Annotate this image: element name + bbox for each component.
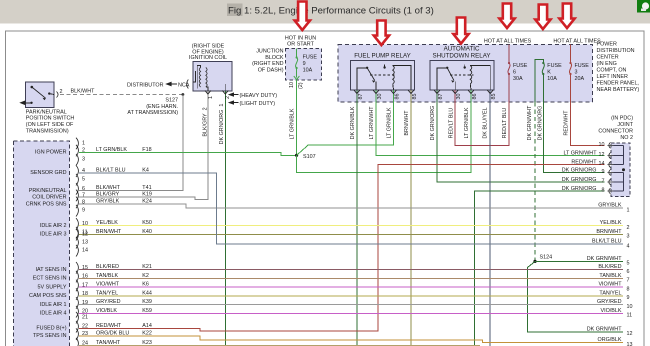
joint connector comb bus (lower) [614,173,624,192]
svg-text:T41: T41 [142,185,151,191]
svg-text:BRN/WHT: BRN/WHT [596,229,622,235]
wire BLK/RED K21 from PCM pin 15 to right edge pin 6 [79,269,623,271]
svg-text:F18: F18 [142,147,151,153]
svg-text:BRN/WHT: BRN/WHT [96,229,122,235]
svg-text:COMPT, ON: COMPT, ON [597,68,627,74]
svg-text:12: 12 [599,152,605,158]
PCM pin 23 terminal bracket [76,328,78,340]
svg-text:3: 3 [575,70,578,76]
svg-text:8: 8 [602,188,605,194]
right edge label BRN/WHT 3 [596,229,629,240]
junction block caption [252,49,284,74]
svg-text:A14: A14 [142,323,152,329]
wire ORG/DK BLU K22 from PCM pin 23 to right edge pin 13 [79,336,623,343]
fuel pump relay terminal pin 85 [408,90,414,94]
svg-text:BLK/GRY: BLK/GRY [96,192,120,198]
svg-text:(IN ENG: (IN ENG [597,61,617,67]
svg-text:COIL DRIVER: COIL DRIVER [32,194,66,200]
svg-text:BLK/GRY 2: BLK/GRY 2 [202,107,208,136]
header title "Fig" highlight [227,4,243,17]
svg-text:9: 9 [82,208,85,214]
svg-text:(RIGHT END: (RIGHT END [252,61,283,67]
PCM pin 11 wire label BRN/WHT K40 [96,229,152,235]
park/neutral switch pin 2 terminal bracket [57,92,59,98]
svg-text:20A: 20A [575,76,585,82]
power distribution center caption [597,42,640,94]
PCM pin 10 wire label YEL/BLK K50 [96,220,152,226]
ignition coil pin 1 terminal arrow [205,91,211,95]
svg-text:FENDER PANEL,: FENDER PANEL, [597,81,640,87]
svg-text:TAN/YEL: TAN/YEL [96,290,118,296]
svg-text:86: 86 [395,94,401,100]
svg-text:19: 19 [82,300,88,306]
svg-text:10: 10 [289,82,295,88]
park/neutral switch arm [32,87,46,98]
wire BLK/LT BLU K4 from PCM pin 4 to right edge pin 4 [79,173,623,244]
svg-text:DK GRN/ORG: DK GRN/ORG [537,106,543,141]
wire DK GRN/ORG from joint connector pin 8 down to bottom edge [474,191,604,346]
svg-text:LT GRN/BLK: LT GRN/BLK [290,108,296,139]
fuel pump relay coil link (dashed) [370,74,396,76]
svg-text:POSITION SWITCH: POSITION SWITCH [26,116,75,122]
svg-text:5V SUPPLY: 5V SUPPLY [38,284,67,290]
svg-text:K59: K59 [142,308,152,314]
svg-text:NEAR BATTERY): NEAR BATTERY) [597,87,640,93]
green toolbar button top-right [637,0,650,13]
svg-text:YEL/BLK: YEL/BLK [96,220,118,226]
svg-text:(IN PDC): (IN PDC) [611,116,633,122]
fuel pump relay arm terminal from pin 30 [375,82,377,90]
svg-text:10: 10 [82,221,88,227]
svg-text:DK GRN/ORG: DK GRN/ORG [562,186,597,192]
svg-text:4: 4 [82,168,85,174]
park/neutral switch contact dot [31,86,34,89]
svg-text:(LIGHT DUTY): (LIGHT DUTY) [240,101,276,107]
wire DK GRN/ORG from ASD relay pin 87 to joint connector pin 7 [437,90,605,182]
svg-text:1: 1 [627,207,630,213]
svg-text:IAT SENS IN: IAT SENS IN [36,267,67,273]
svg-text:12: 12 [82,232,88,238]
svg-text:DK GRN/WHT: DK GRN/WHT [527,105,533,140]
svg-text:15: 15 [82,265,88,271]
automatic shutdown relay terminal pin 87 [434,90,440,94]
svg-text:DK BLU/YEL: DK BLU/YEL [483,107,489,138]
svg-text:Fig 1: 5.2L, Engine Performanc: Fig 1: 5.2L, Engine Performance Circuits… [228,6,434,17]
svg-text:K44: K44 [142,290,152,296]
svg-text:ORG/BLK: ORG/BLK [598,337,622,343]
wire TAN/WHT from PCM pin 24 (clipped at bottom) [79,344,480,346]
automatic shutdown relay arm terminal from pin 30 [454,82,456,90]
svg-text:16: 16 [82,274,88,280]
svg-text:13: 13 [627,342,633,346]
svg-text:DK GRN/ORG 1: DK GRN/ORG 1 [219,104,225,145]
svg-text:S107: S107 [303,154,316,160]
svg-text:PRK/NEUTRAL: PRK/NEUTRAL [29,188,67,194]
PCM pin 22 wire label RED/WHT A14 [96,323,152,329]
red callout arrow over fuse K [535,5,550,30]
label HOT IN RUN OR START [285,36,316,48]
PCM pin 6 terminal bracket [76,183,78,195]
svg-text:CAM POS SNS: CAM POS SNS [29,293,67,299]
svg-text:10: 10 [599,142,605,148]
joint connector comb bus (upper) [614,145,624,164]
automatic shutdown relay coil to pin 85 [470,66,490,90]
svg-text:(2): (2) [298,82,304,89]
svg-text:OF DASH): OF DASH) [258,67,284,73]
PCM pin 22 terminal bracket [76,321,78,333]
svg-text:24: 24 [82,341,88,346]
svg-text:K21: K21 [142,264,152,270]
header toolbar bar [0,0,650,23]
svg-text:DISTRIBUTOR: DISTRIBUTOR [127,82,164,88]
svg-text:9: 9 [303,61,306,67]
park/neutral switch caption [26,109,75,134]
node S127 junction dot [182,93,185,96]
automatic shutdown relay terminal pin 85 [487,90,493,94]
PCM pin 24 wire label TAN/WHT K23 [96,340,152,346]
svg-text:BRN/WHT: BRN/WHT [404,110,410,136]
wire YEL/BLK K50 from PCM pin 10 to right edge pin 2 [79,225,623,227]
svg-text:RED/WHT: RED/WHT [571,159,597,165]
svg-text:CENTER: CENTER [597,55,619,61]
PCM pin 3 terminal bracket [76,154,78,166]
svg-text:YEL/BLK: YEL/BLK [600,220,622,226]
svg-text:2: 2 [60,89,63,95]
svg-text:IGNITION COIL: IGNITION COIL [189,55,227,61]
PCM pin 12 terminal bracket [76,229,78,241]
svg-text:K24: K24 [142,199,152,205]
wire DK BLU/YEL from ASD relay pin 85 to bottom edge [489,90,491,346]
right edge label GRY/BLK 1 [598,203,629,214]
svg-text:K: K [547,70,551,76]
svg-text:18: 18 [82,291,88,297]
svg-text:85: 85 [491,94,497,100]
svg-text:BLOCK: BLOCK [265,55,284,61]
svg-text:LT GRN/BLK: LT GRN/BLK [464,107,470,138]
wire RED/WHT from fuse 3 to joint connector pin 10 [571,74,605,145]
svg-text:DK GRN/ORG: DK GRN/ORG [430,106,436,141]
fuel pump relay coil winding [393,66,395,84]
PCM pin 5 terminal bracket [76,174,78,186]
joint connector caption [598,116,633,142]
PCM pin 16 wire label TAN/BLK K2 [96,273,149,279]
svg-text:9: 9 [602,169,605,175]
svg-text:2: 2 [225,96,231,99]
wire RED/LT BLU fuse 6 feed from PDC bus [508,45,510,64]
relay title AUTOMATIC SHUTDOWN RELAY [433,46,491,60]
wire RED/LT BLU from ASD relay pin 30 to fuse 6 [455,74,509,145]
right edge label VIO/BLK 11 [601,308,633,319]
svg-text:POWER: POWER [597,42,617,48]
right edge label DK GRN/WHT 12 [587,326,633,337]
svg-text:(ENG HARN.: (ENG HARN. [146,104,178,110]
fuel pump relay terminal pin 87 [354,90,360,94]
automatic shutdown relay movable arm [447,68,454,81]
wire GRY/RED K39 from PCM pin 19 to right edge pin 10 [79,304,623,306]
automatic shutdown relay terminal pin 86 [468,90,474,94]
wire VIO/WHT K6 from PCM pin 17 to right edge pin 8 [79,286,623,288]
svg-text:85: 85 [412,94,418,100]
svg-text:2: 2 [82,148,85,154]
svg-text:86: 86 [472,94,478,100]
svg-text:FUEL PUMP RELAY: FUEL PUMP RELAY [354,52,411,59]
svg-text:3: 3 [82,157,85,163]
svg-text:12: 12 [627,331,633,337]
svg-text:14: 14 [82,248,88,254]
PCM pin 2 wire label LT GRN/BLK F18 [96,147,152,153]
PCM pin 6 wire label BLK/WHT T41 [96,185,152,191]
ignition coil windings [193,66,226,92]
svg-text:11: 11 [627,313,633,319]
svg-text:4: 4 [627,243,630,249]
ignition coil pin 2 terminal arrow [222,91,228,95]
PCM pin 8 terminal bracket [76,197,78,209]
svg-text:S124: S124 [540,255,553,261]
svg-text:JOINT: JOINT [617,122,633,128]
right edge label YEL/BLK 2 [600,220,630,231]
svg-text:(ON LEFT SIDE OF: (ON LEFT SIDE OF [26,122,74,128]
PCM pin 19 wire label GRY/RED K39 [96,299,152,305]
svg-text:JUNCTION: JUNCTION [256,49,283,55]
svg-text:K4: K4 [142,167,149,173]
wire BRN/WHT from fuel pump relay pin 85 to bottom edge [410,90,412,346]
svg-text:IDLE AIR 4: IDLE AIR 4 [40,311,67,317]
svg-text:LT GRN/WHT: LT GRN/WHT [563,150,597,156]
node S124 junction dot [533,260,536,263]
right edge label TAN/YEL 9 [599,290,629,301]
PCM pin 24 terminal bracket [76,338,78,346]
joint connector pin 8 terminal bracket [609,188,611,194]
svg-text:K39: K39 [142,299,152,305]
svg-text:2: 2 [627,225,630,231]
svg-text:TAN/BLK: TAN/BLK [599,273,621,279]
PCM connector C1 (dashed box, left) [14,141,70,346]
wire LT GRN/BLK 10 from fuse 9 to splice S107 [296,80,298,156]
svg-text:K50: K50 [142,220,152,226]
PCM pin 19 terminal bracket [76,297,78,309]
right edge label DK GRN/WHT 5 [587,256,630,267]
PCM pin 20 wire label VIO/BLK K59 [96,308,152,314]
joint connector pin 7 terminal bracket [609,179,611,185]
wire BLK/WHT T41 from S127 down/left to PCM pin 6 [79,95,183,191]
svg-text:8: 8 [82,199,85,205]
svg-text:GRY/BLK: GRY/BLK [96,199,120,205]
park/neutral position switch box [26,82,55,108]
right edge label GRY/RED 10 [597,299,632,310]
svg-text:TAN/YEL: TAN/YEL [599,290,621,296]
svg-text:RED/LT BLU: RED/LT BLU [448,108,454,139]
fuse 6 value label [513,63,528,82]
PCM pin 4 wire label BLK/LT BLU K4 [96,167,149,173]
ignition coil caption [189,44,227,62]
svg-text:VIO/WHT: VIO/WHT [598,282,622,288]
svg-text:VIO/WHT: VIO/WHT [96,282,120,288]
svg-text:FUSE: FUSE [303,55,318,61]
node S127 label [127,98,178,117]
svg-text:RED/LT BLU: RED/LT BLU [502,108,508,139]
PCM pin 2 terminal bracket [76,145,78,157]
joint connector pin numbers [599,142,605,194]
svg-text:K23: K23 [142,340,152,346]
svg-text:21: 21 [82,315,88,321]
fuse 3 element [570,62,572,64]
fuel pump relay terminal pin 86 [391,90,397,94]
svg-text:TAN/WHT: TAN/WHT [96,340,121,346]
ignition coil box [193,62,232,92]
svg-text:VIO/BLK: VIO/BLK [96,308,117,314]
svg-text:10A: 10A [303,68,313,74]
joint connector pin 12 terminal bracket [609,153,611,159]
svg-text:17: 17 [82,282,88,288]
svg-text:HOT AT ALL TIMES: HOT AT ALL TIMES [484,39,532,45]
wire BLK/WHT from park/neutral switch to splice S127 (dashed) [60,94,183,96]
wire DK GRN/WHT (dashed) from PDC down to splice S124 [534,102,536,260]
svg-text:87: 87 [358,94,364,100]
PCM pin 1 terminal bracket [76,138,78,150]
svg-text:BLK/LT BLU: BLK/LT BLU [592,239,622,245]
heavy duty callout arrow [228,92,277,99]
svg-text:LT GRN/BLK: LT GRN/BLK [96,147,127,153]
joint connector pin 10 terminal bracket [609,142,611,148]
svg-text:IGN POWER: IGN POWER [35,150,67,156]
svg-text:6: 6 [513,70,516,76]
wire loop from fuse K top to DK GRN/WHT leg inside PDC [535,60,543,102]
PCM pin 14 terminal bracket [76,245,78,257]
svg-text:K40: K40 [142,229,152,235]
PCM pin 16 terminal bracket [76,271,78,283]
svg-text:NO 2: NO 2 [620,135,633,141]
PCM pin 18 terminal bracket [76,288,78,300]
svg-text:VIO/BLK: VIO/BLK [601,308,622,314]
park/neutral switch pin 2 contact [48,92,50,94]
fuel pump relay second contact dot [383,66,385,68]
svg-text:CONNECTOR: CONNECTOR [598,129,633,135]
svg-text:7: 7 [602,179,605,185]
joint connector no 2 (dashed box, right) [611,143,630,196]
svg-text:IDLE AIR 2: IDLE AIR 2 [40,223,67,229]
PCM pin 23 wire label ORG/DK BLU K22 [96,330,152,336]
svg-text:GRY/RED: GRY/RED [597,299,622,305]
svg-text:TPS SENS IN: TPS SENS IN [33,333,67,339]
PCM pin 15 terminal bracket [76,262,78,274]
svg-text:S127: S127 [165,98,178,104]
svg-text:OR START: OR START [287,42,314,48]
svg-text:BLK/RED: BLK/RED [96,264,119,270]
distributor label and arrow [127,80,190,89]
PCM pin 17 wire label VIO/WHT K6 [96,282,149,288]
joint connector wire labels [562,150,597,191]
wire DK GRN/ORG from fuse K to joint connector pin 9 [543,74,604,173]
svg-text:BLK/RED: BLK/RED [598,264,621,270]
wire LT GRN/BLK from S107 up to fuel pump relay pin 86 [297,90,394,155]
automatic shutdown relay contact stub from pin 87 [437,68,446,90]
PCM pin 20 terminal bracket [76,306,78,318]
svg-text:10: 10 [627,304,633,310]
svg-text:30: 30 [377,94,383,100]
joint connector junction dot [622,168,625,171]
svg-text:TAN/BLK: TAN/BLK [96,273,118,279]
svg-text:30: 30 [456,94,462,100]
right edge label BLK/LT BLU 4 [592,239,629,250]
joint connector pin 14 terminal bracket [609,162,611,168]
svg-text:SENSOR GRD: SENSOR GRD [30,170,66,176]
svg-text:BLK/WHT: BLK/WHT [71,89,96,95]
svg-text:ECT SENS IN: ECT SENS IN [33,276,67,282]
red callout arrow over fuse 6 HOT AT ALL TIMES [499,4,514,29]
wire LT GRN/WHT from fuel pump relay pin 30 to joint connector pin 12 [376,90,605,156]
joint connector pin 9 terminal bracket [609,170,611,176]
automatic shutdown relay box [430,61,494,91]
svg-text:FUSED B(+): FUSED B(+) [36,326,66,332]
automatic shutdown relay coil winding [470,66,472,84]
svg-text:K6: K6 [142,282,149,288]
wire VIO/BLK K59 from PCM pin 20 to right edge pin 11 [79,313,623,315]
wire LT GRN/BLK F18 from PCM pin 2 to S107 [79,152,297,155]
wire LT GRN/BLK from S107 down to ASD relay pin 86 [297,90,471,172]
svg-text:PARK/NEUTRAL: PARK/NEUTRAL [26,109,67,115]
fuse K element [542,62,544,64]
PCM pin 4 terminal bracket [76,165,78,177]
PCM pin 21 terminal bracket [76,312,78,324]
svg-text:1: 1 [82,141,85,147]
fuse 6 element [508,62,510,64]
svg-text:SHUTDOWN RELAY: SHUTDOWN RELAY [433,52,491,59]
fuse 3 value label [575,63,590,82]
PCM pin 15 wire label BLK/RED K21 [96,264,152,270]
svg-text:23: 23 [82,331,88,337]
red callout arrow over fuse 3 HOT AT ALL TIMES [559,4,574,29]
fuel pump relay movable arm [367,68,375,81]
svg-text:6: 6 [82,186,85,192]
wire DK GRN/BLK from fuel pump relay pin 87 to bottom edge [356,90,358,346]
svg-text:BLK/WHT: BLK/WHT [96,185,121,191]
junction block fuse 9 (dashed box) [286,49,322,81]
wire GRY/BLK K24 from PCM pin 8 to right edge pin 1 [79,204,623,208]
svg-text:5: 5 [627,261,630,267]
svg-text:DISTRIBUTION: DISTRIBUTION [597,48,635,54]
svg-text:GRY/RED: GRY/RED [96,299,121,305]
red callout arrow over automatic shutdown relay [453,18,468,44]
fuel pump relay coil to pin 85 [393,66,411,90]
svg-text:RED/WHT: RED/WHT [96,323,122,329]
svg-text:CRNK POS SNS: CRNK POS SNS [26,201,67,207]
red callout arrow over fuel pump relay [374,21,389,46]
PCM pin 9 terminal bracket [76,205,78,217]
PCM pin 13 terminal bracket [76,237,78,249]
svg-text:10A: 10A [547,76,557,82]
fuse 9 element [296,49,298,58]
right edge label ORG/BLK 13 [598,337,633,346]
svg-text:1: 1 [208,96,214,99]
PCM pin 11 terminal bracket [76,227,78,239]
svg-text:DK GRN/ORG: DK GRN/ORG [562,167,597,173]
svg-text:6: 6 [627,269,630,275]
park/neutral switch ground-side arrow [19,100,32,105]
automatic shutdown relay stationary contact dot [446,67,448,69]
wire DK GRN/WHT from S124 down to right edge pin 12 [528,261,624,332]
svg-text:7: 7 [627,278,630,284]
wire DK GRN/WHT from S124 to right edge pin 5 [535,260,623,262]
fuse K value label [547,63,562,82]
fuel pump relay contact stub from pin 87 [357,68,366,90]
svg-text:FUSE: FUSE [547,63,562,69]
svg-text:IDLE AIR 3: IDLE AIR 3 [40,232,67,238]
svg-text:DK GRN/WHT: DK GRN/WHT [587,256,622,262]
svg-text:ORG/DK BLU: ORG/DK BLU [96,330,129,336]
automatic shutdown relay coil link (dashed) [450,74,474,76]
wire RED/WHT A14 from PCM pin 22 up to joint connector pin 14 [79,165,605,332]
fuel pump relay box [351,61,415,91]
